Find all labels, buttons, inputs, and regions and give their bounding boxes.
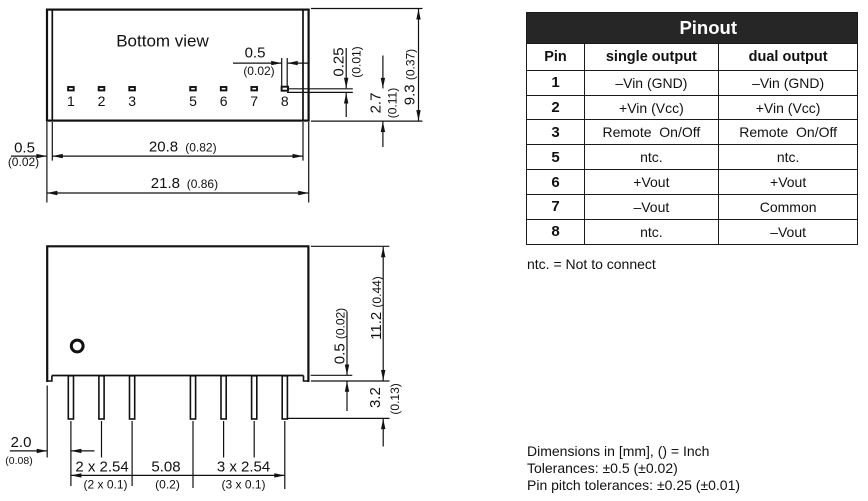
svg-text:(3 x 0.1): (3 x 0.1) (221, 477, 265, 491)
svg-text:(0.02): (0.02) (8, 155, 39, 169)
dimension 3.2 pin length (side view) (367, 383, 402, 446)
pin 1 (bottom view) (67, 87, 75, 109)
svg-text:3.2: 3.2 (367, 387, 384, 408)
package outline (side view) (47, 246, 308, 382)
extension lines below (bottom view) (47, 122, 309, 203)
dimension 2.0 (side view) (5, 434, 94, 467)
pin 3 (bottom view) (128, 87, 136, 109)
notes dimensions (527, 443, 740, 495)
dimension 0.25 pin thickness (bottom view) (331, 46, 364, 117)
svg-text:0.25: 0.25 (331, 47, 348, 76)
svg-text:3 x 2.54: 3 x 2.54 (217, 458, 270, 475)
side wall line left (bottom view) (51, 10, 53, 120)
extension lines right (side view) (288, 246, 390, 418)
pin 7 (bottom view) (250, 87, 258, 109)
dimension 2 x 2.54 (side view) (75, 458, 128, 491)
svg-text:1: 1 (67, 93, 75, 109)
package outline (bottom view) (47, 10, 309, 121)
dimension 5.08 (side view) (151, 458, 180, 491)
pin 6 (side view) (221, 376, 226, 419)
svg-text:(0.02): (0.02) (243, 64, 274, 78)
pin 8 (side view) (282, 376, 287, 419)
note ntc (527, 256, 656, 272)
dimension 0.5 pin-8 offset (bottom view) (233, 45, 308, 87)
pin 6 (bottom view) (220, 87, 228, 109)
svg-text:(0.11): (0.11) (386, 88, 400, 118)
svg-text:2.0: 2.0 (11, 434, 32, 451)
svg-text:2: 2 (98, 93, 106, 109)
pin centre lines (side view) (71, 421, 285, 489)
svg-text:9.3 (0.37): 9.3 (0.37) (401, 49, 418, 105)
svg-text:0.5: 0.5 (245, 45, 266, 62)
svg-text:5.08: 5.08 (151, 458, 180, 475)
dimension 0.5 wall thickness (bottom view) (8, 140, 47, 169)
svg-text:(0.01): (0.01) (349, 46, 363, 77)
leader lines from pin 8 (287, 89, 353, 93)
svg-text:0.5 (0.02): 0.5 (0.02) (331, 308, 348, 364)
svg-text:(0.2): (0.2) (155, 477, 180, 491)
pin 3 (side view) (130, 376, 135, 419)
svg-text:2 x 2.54: 2 x 2.54 (75, 458, 128, 475)
extension line below left edge (side view) (46, 386, 48, 458)
pin 5 (bottom view) (189, 87, 197, 109)
pin-1 indicator circle (side view) (71, 340, 83, 352)
side wall line right (bottom view) (302, 10, 304, 120)
pin 2 (side view) (99, 376, 104, 419)
pin pitch dimension line (side view) (71, 473, 285, 477)
dimension 3 x 2.54 (side view) (217, 458, 270, 491)
svg-text:5: 5 (189, 93, 197, 109)
pin 7 (side view) (252, 376, 257, 419)
svg-text:20.8: 20.8 (149, 139, 178, 156)
svg-text:8: 8 (281, 93, 289, 109)
svg-text:2.7: 2.7 (367, 93, 384, 114)
dimension 2.7 pin row to edge (bottom view) (367, 56, 399, 148)
svg-text:3: 3 (128, 93, 136, 109)
svg-text:(2 x 0.1): (2 x 0.1) (83, 477, 127, 491)
dimension 0.5 standoff (side view) (331, 308, 349, 411)
pin 2 (bottom view) (98, 87, 106, 109)
svg-text:(0.82): (0.82) (185, 141, 216, 155)
svg-text:(0.08): (0.08) (5, 455, 32, 467)
dimension 11.2 body height (side view) (368, 247, 386, 381)
dimensional drawing (0, 0, 520, 501)
svg-text:Bottom view: Bottom view (116, 32, 209, 51)
dimension 20.8 (bottom view) (52, 139, 303, 159)
svg-text:7: 7 (250, 93, 258, 109)
svg-text:(0.86): (0.86) (187, 177, 218, 191)
svg-text:6: 6 (220, 93, 228, 109)
pin 5 (side view) (190, 376, 195, 419)
pinout table (526, 12, 858, 245)
dimension 9.3 body width (bottom view) (311, 9, 423, 122)
dimension 21.8 (bottom view) (47, 175, 309, 195)
pin 8 (bottom view) (281, 87, 289, 109)
svg-text:(0.13): (0.13) (388, 383, 402, 414)
pin 1 (side view) (68, 376, 73, 419)
svg-text:11.2 (0.44): 11.2 (0.44) (368, 276, 385, 340)
svg-text:21.8: 21.8 (151, 175, 180, 192)
